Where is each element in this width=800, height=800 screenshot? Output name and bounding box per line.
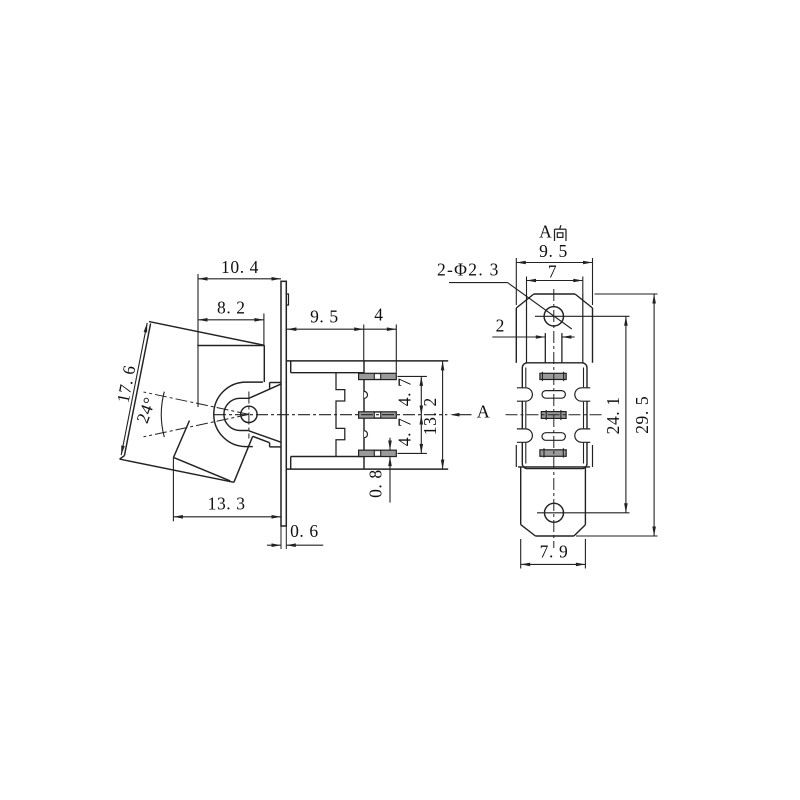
svg-text:2-Φ2. 3: 2-Φ2. 3	[437, 260, 500, 280]
svg-text:24. 1: 24. 1	[603, 396, 623, 434]
svg-text:4: 4	[374, 304, 383, 324]
svg-text:2: 2	[496, 316, 505, 336]
svg-text:A: A	[539, 222, 552, 242]
svg-text:7. 9: 7. 9	[540, 542, 569, 562]
svg-text:4. 7: 4. 7	[394, 378, 414, 407]
svg-text:9. 5: 9. 5	[539, 241, 568, 261]
svg-text:13. 2: 13. 2	[420, 397, 440, 435]
svg-text:0. 6: 0. 6	[290, 521, 319, 541]
svg-text:13. 3: 13. 3	[208, 494, 246, 514]
svg-text:4. 7: 4. 7	[394, 418, 414, 447]
svg-text:0. 8: 0. 8	[365, 469, 385, 498]
svg-text:A: A	[477, 402, 491, 422]
svg-text:7: 7	[548, 262, 557, 282]
svg-text:29. 5: 29. 5	[632, 396, 652, 434]
svg-text:9. 5: 9. 5	[310, 307, 339, 327]
svg-text:8. 2: 8. 2	[217, 298, 246, 318]
svg-text:10. 4: 10. 4	[221, 257, 259, 277]
